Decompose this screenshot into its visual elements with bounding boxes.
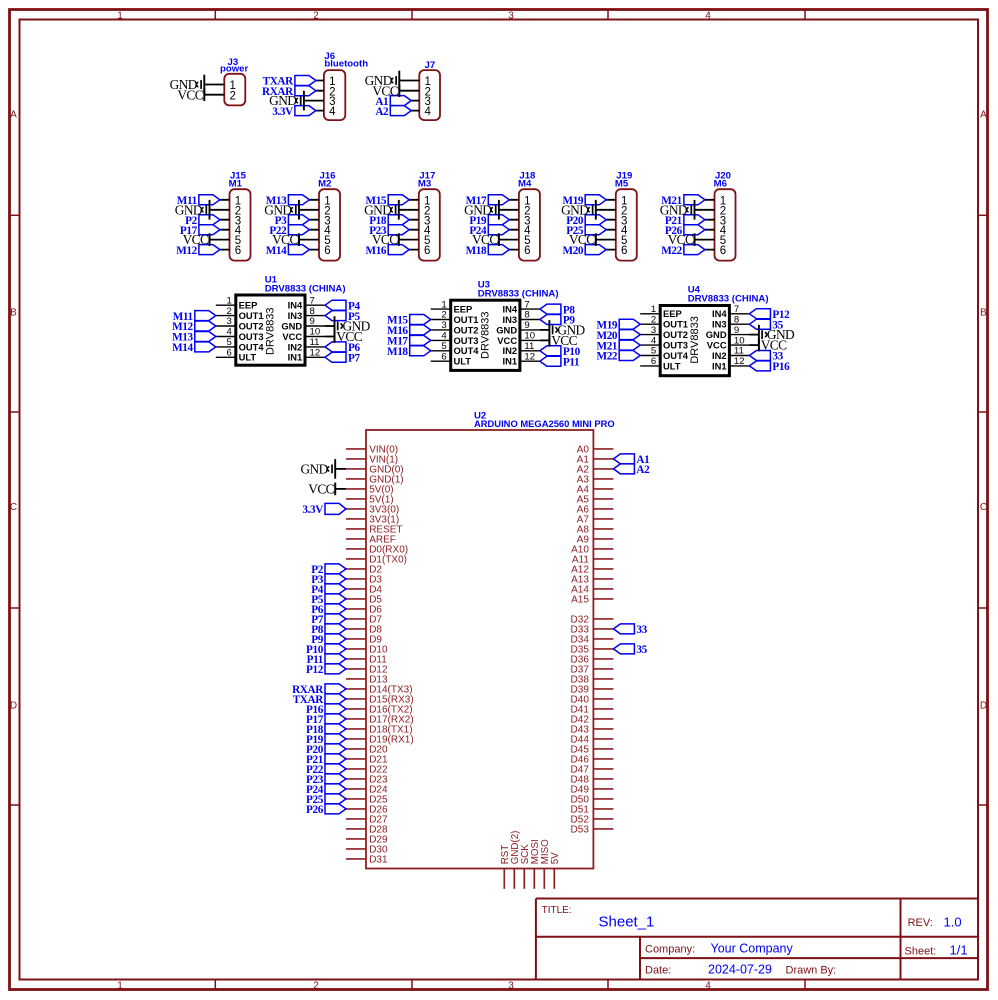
svg-text:4: 4 (329, 106, 336, 118)
svg-text:GND: GND (464, 202, 492, 217)
svg-text:11: 11 (524, 341, 534, 352)
svg-text:OUT4: OUT4 (663, 350, 689, 361)
svg-text:33: 33 (636, 624, 647, 636)
svg-text:5: 5 (226, 337, 231, 348)
svg-text:6: 6 (424, 245, 430, 257)
svg-text:VCC: VCC (569, 232, 595, 247)
svg-text:35: 35 (636, 644, 647, 656)
svg-text:4: 4 (425, 106, 432, 118)
svg-text:VCC: VCC (668, 232, 694, 247)
svg-text:2: 2 (313, 11, 319, 22)
svg-text:VCC: VCC (183, 232, 209, 247)
svg-text:P26: P26 (306, 804, 324, 816)
svg-text:A: A (10, 110, 17, 121)
svg-text:2: 2 (313, 980, 319, 991)
svg-text:GND: GND (660, 202, 688, 217)
svg-text:GND: GND (364, 202, 392, 217)
svg-text:VCC: VCC (282, 331, 302, 342)
svg-text:12: 12 (310, 348, 321, 359)
svg-text:DRV8833 (CHINA): DRV8833 (CHINA) (265, 283, 346, 294)
svg-text:D: D (980, 701, 987, 712)
svg-text:GND: GND (706, 329, 727, 340)
svg-text:DRV8833 (CHINA): DRV8833 (CHINA) (688, 294, 769, 305)
svg-text:4: 4 (705, 11, 711, 22)
svg-text:D31: D31 (369, 854, 388, 865)
svg-text:7: 7 (734, 304, 739, 315)
svg-text:VCC: VCC (308, 482, 334, 497)
svg-text:GND: GND (281, 320, 302, 331)
svg-text:D53: D53 (571, 824, 590, 835)
svg-text:OUT2: OUT2 (454, 324, 479, 335)
svg-text:REV:: REV: (908, 917, 933, 929)
svg-text:B: B (10, 308, 17, 319)
svg-text:4: 4 (226, 327, 232, 338)
svg-text:10: 10 (524, 331, 535, 342)
svg-text:OUT3: OUT3 (663, 340, 688, 351)
svg-text:A15: A15 (571, 594, 589, 605)
svg-text:TITLE:: TITLE: (542, 905, 572, 916)
svg-text:6: 6 (441, 351, 446, 362)
svg-text:8: 8 (524, 310, 529, 321)
svg-text:C: C (10, 502, 17, 513)
svg-text:Sheet:: Sheet: (905, 946, 937, 958)
svg-text:3: 3 (226, 316, 231, 327)
svg-text:A2: A2 (375, 106, 389, 118)
svg-text:2: 2 (651, 314, 656, 325)
svg-text:OUT4: OUT4 (239, 341, 265, 352)
svg-text:11: 11 (734, 346, 744, 357)
svg-text:IN1: IN1 (503, 356, 518, 367)
svg-text:VCC: VCC (177, 87, 203, 102)
svg-text:B: B (980, 308, 987, 319)
svg-text:2: 2 (230, 90, 236, 102)
svg-text:5V: 5V (550, 852, 561, 864)
svg-text:Drawn By:: Drawn By: (786, 965, 837, 977)
svg-text:GND: GND (561, 202, 589, 217)
svg-text:10: 10 (310, 327, 321, 338)
svg-text:M6: M6 (714, 178, 727, 189)
svg-text:M4: M4 (518, 178, 532, 189)
svg-text:8: 8 (734, 314, 739, 325)
svg-text:IN2: IN2 (288, 341, 303, 352)
svg-text:4: 4 (705, 980, 711, 991)
svg-text:3: 3 (651, 325, 656, 336)
svg-text:1: 1 (651, 304, 656, 315)
svg-text:5: 5 (441, 341, 446, 352)
svg-text:IN3: IN3 (288, 310, 303, 321)
svg-text:P7: P7 (348, 353, 360, 365)
svg-text:4: 4 (441, 331, 447, 342)
svg-text:3.3V: 3.3V (302, 504, 323, 516)
svg-text:M14: M14 (172, 342, 193, 354)
svg-text:12: 12 (734, 356, 745, 367)
svg-text:IN3: IN3 (712, 319, 727, 330)
svg-text:1: 1 (441, 299, 446, 310)
svg-text:OUT2: OUT2 (663, 329, 688, 340)
svg-text:M3: M3 (418, 178, 431, 189)
svg-text:OUT1: OUT1 (239, 310, 264, 321)
svg-text:GND: GND (264, 202, 292, 217)
svg-text:Date:: Date: (645, 965, 671, 977)
svg-text:EEP: EEP (239, 300, 258, 311)
svg-text:M2: M2 (318, 178, 331, 189)
svg-text:6: 6 (235, 245, 241, 257)
svg-text:ARDUINO MEGA2560 MINI PRO: ARDUINO MEGA2560 MINI PRO (474, 418, 615, 429)
svg-text:6: 6 (524, 245, 530, 257)
svg-text:M5: M5 (615, 178, 629, 189)
svg-text:OUT4: OUT4 (454, 345, 480, 356)
svg-text:OUT1: OUT1 (454, 314, 479, 325)
svg-text:1.0: 1.0 (944, 915, 962, 930)
svg-text:DRV8833: DRV8833 (689, 316, 701, 364)
svg-text:P11: P11 (563, 356, 580, 368)
svg-text:bluetooth: bluetooth (324, 59, 368, 70)
svg-text:IN1: IN1 (288, 352, 303, 363)
svg-text:3: 3 (508, 980, 514, 991)
svg-text:IN2: IN2 (712, 350, 727, 361)
svg-text:IN2: IN2 (503, 345, 518, 356)
svg-text:IN1: IN1 (712, 360, 727, 371)
svg-text:GND: GND (269, 93, 297, 108)
svg-text:EEP: EEP (454, 304, 473, 315)
svg-text:2024-07-29: 2024-07-29 (708, 963, 772, 977)
svg-text:12: 12 (524, 351, 535, 362)
svg-text:5: 5 (651, 346, 656, 357)
svg-text:M22: M22 (596, 351, 617, 363)
svg-text:EEP: EEP (663, 308, 682, 319)
svg-text:7: 7 (524, 299, 529, 310)
svg-text:IN4: IN4 (712, 308, 727, 319)
svg-text:J7: J7 (425, 60, 436, 71)
svg-text:7: 7 (310, 295, 315, 306)
svg-text:P16: P16 (772, 361, 790, 373)
svg-text:A2: A2 (636, 464, 650, 476)
svg-text:C: C (980, 502, 987, 513)
svg-text:6: 6 (621, 245, 627, 257)
svg-text:IN4: IN4 (503, 304, 518, 315)
svg-text:3: 3 (508, 11, 514, 22)
svg-text:4: 4 (651, 335, 657, 346)
svg-text:OUT2: OUT2 (239, 320, 264, 331)
svg-text:6: 6 (720, 245, 726, 257)
svg-text:DRV8833: DRV8833 (265, 307, 277, 355)
svg-text:VCC: VCC (272, 232, 298, 247)
svg-text:ULT: ULT (454, 356, 472, 367)
svg-text:9: 9 (734, 325, 739, 336)
svg-text:Your Company: Your Company (711, 942, 794, 956)
svg-text:2: 2 (441, 310, 446, 321)
svg-text:Sheet_1: Sheet_1 (599, 914, 655, 931)
svg-text:OUT3: OUT3 (239, 331, 264, 342)
svg-text:IN3: IN3 (503, 314, 518, 325)
svg-text:9: 9 (524, 320, 529, 331)
svg-text:A: A (980, 110, 987, 121)
svg-text:VCC: VCC (472, 232, 498, 247)
svg-text:6: 6 (651, 356, 656, 367)
svg-text:6: 6 (324, 245, 330, 257)
svg-text:VCC: VCC (761, 338, 787, 353)
svg-text:2: 2 (226, 306, 231, 317)
svg-text:11: 11 (310, 337, 320, 348)
svg-text:VCC: VCC (707, 340, 727, 351)
svg-text:VCC: VCC (336, 329, 362, 344)
svg-text:OUT1: OUT1 (663, 319, 688, 330)
svg-text:OUT3: OUT3 (454, 335, 479, 346)
svg-text:DRV8833: DRV8833 (479, 311, 491, 359)
svg-text:power: power (220, 64, 249, 75)
svg-text:ULT: ULT (663, 360, 681, 371)
svg-text:3: 3 (441, 320, 446, 331)
svg-text:1/1: 1/1 (950, 943, 968, 958)
svg-text:1: 1 (226, 295, 231, 306)
svg-text:M1: M1 (229, 178, 243, 189)
svg-text:VCC: VCC (372, 83, 398, 98)
svg-text:M18: M18 (387, 346, 408, 358)
svg-text:ULT: ULT (239, 352, 257, 363)
svg-text:VCC: VCC (372, 232, 398, 247)
svg-text:10: 10 (734, 335, 745, 346)
svg-text:VCC: VCC (497, 335, 517, 346)
svg-text:IN4: IN4 (288, 300, 303, 311)
svg-text:P12: P12 (306, 664, 324, 676)
svg-text:D: D (10, 701, 17, 712)
svg-text:GND: GND (496, 324, 517, 335)
svg-text:1: 1 (117, 11, 123, 22)
svg-text:Company:: Company: (645, 944, 695, 956)
svg-text:VCC: VCC (551, 333, 577, 348)
svg-text:9: 9 (310, 316, 315, 327)
svg-text:1: 1 (117, 980, 123, 991)
svg-text:6: 6 (226, 348, 231, 359)
svg-text:8: 8 (310, 306, 315, 317)
svg-text:DRV8833 (CHINA): DRV8833 (CHINA) (478, 289, 559, 300)
svg-text:GND: GND (175, 202, 203, 217)
svg-text:GND: GND (300, 462, 328, 477)
